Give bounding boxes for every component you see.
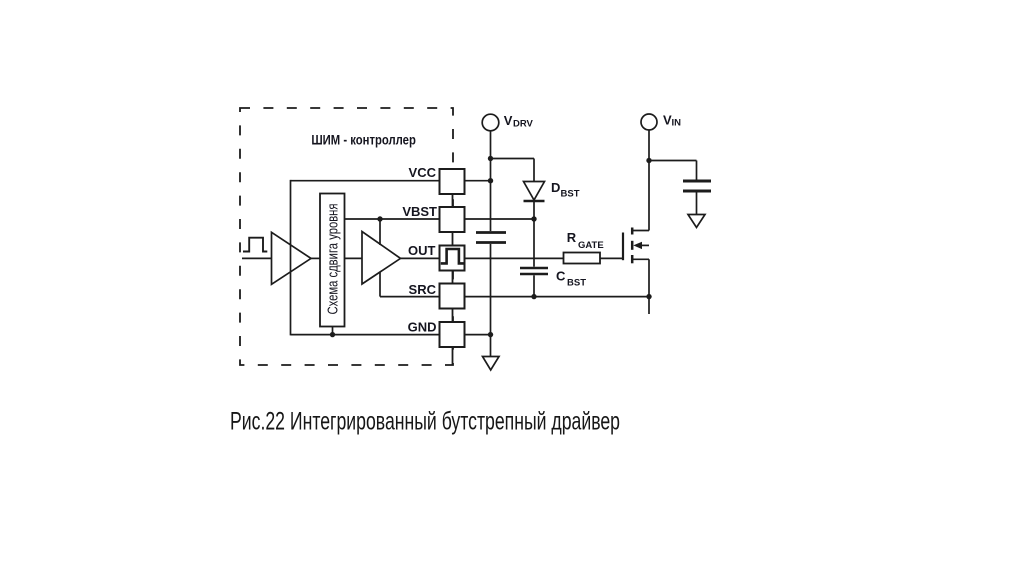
svg-text:BST: BST bbox=[567, 277, 586, 288]
svg-text:DRV: DRV bbox=[513, 119, 534, 130]
svg-text:Рис.22 Интегрированный бутстре: Рис.22 Интегрированный бутстрепный драйв… bbox=[230, 408, 620, 436]
svg-text:GND: GND bbox=[408, 320, 437, 335]
svg-text:VCC: VCC bbox=[409, 165, 437, 180]
svg-text:SRC: SRC bbox=[409, 282, 437, 297]
svg-text:C: C bbox=[556, 268, 566, 283]
svg-text:ШИМ - контроллер: ШИМ - контроллер bbox=[311, 132, 416, 148]
svg-text:VBST: VBST bbox=[402, 204, 437, 219]
svg-text:V: V bbox=[504, 113, 513, 128]
svg-text:D: D bbox=[551, 180, 560, 195]
svg-text:OUT: OUT bbox=[408, 243, 436, 258]
svg-text:BST: BST bbox=[561, 189, 580, 200]
svg-text:GATE: GATE bbox=[578, 240, 604, 251]
svg-text:R: R bbox=[567, 230, 577, 245]
svg-text:Схема сдвига уровня: Схема сдвига уровня bbox=[325, 204, 341, 315]
svg-text:IN: IN bbox=[672, 118, 682, 129]
